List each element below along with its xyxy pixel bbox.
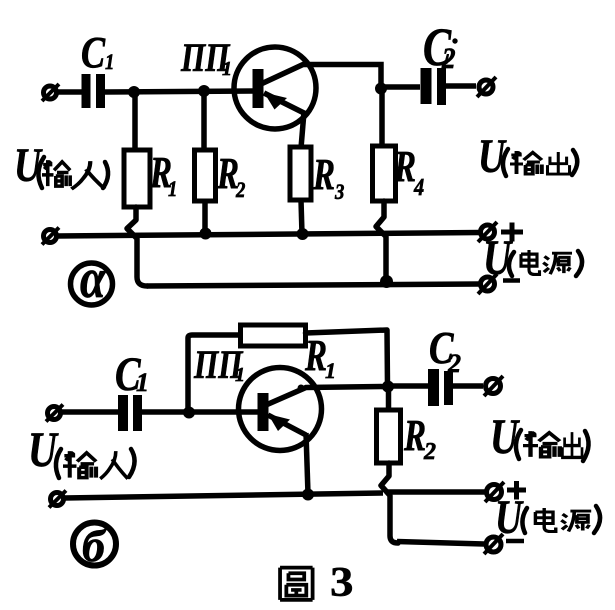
- node R3 rail: [297, 228, 309, 240]
- transistor U1 collector line: [261, 65, 381, 89]
- capacitor C1: [86, 74, 101, 108]
- wire node to R2 b: [386, 386, 392, 411]
- wire input to C1: [57, 89, 82, 95]
- plus sign a: [501, 223, 523, 242]
- resistor R2 b: [377, 410, 401, 463]
- label U output a: [478, 131, 577, 183]
- wire emitter to R3: [301, 112, 304, 148]
- lower rail a: [147, 284, 480, 286]
- wire emitter to rail b: [306, 433, 308, 494]
- label R3: [312, 151, 344, 205]
- resistor R3: [290, 147, 311, 200]
- svg-text:R: R: [403, 412, 426, 461]
- capacitor C1 b: [123, 395, 138, 431]
- svg-text:α: α: [80, 248, 106, 310]
- wire R1 jog to lower rail: [127, 207, 147, 286]
- svg-text:2: 2: [235, 179, 245, 203]
- wire R2 fork to rails b: [381, 463, 398, 543]
- wire node to R1: [132, 92, 138, 151]
- svg-text:1: 1: [136, 368, 149, 397]
- svg-text:2: 2: [441, 43, 455, 76]
- label circle a: [71, 248, 113, 310]
- capacitor C2: [426, 68, 442, 105]
- resistor R1 b horizontal: [241, 325, 306, 346]
- node emitter rail b: [302, 489, 314, 501]
- minus sign b: [506, 539, 524, 544]
- transistor U2 base bar: [258, 393, 269, 431]
- transistor U2 circle: [239, 368, 322, 451]
- transistor U2 emitter arrow: [268, 414, 290, 431]
- terminal minus a: [478, 274, 497, 294]
- node R4 lower rail: [380, 275, 393, 288]
- rail left b: [64, 493, 383, 498]
- node collector C2 R2 b: [382, 381, 394, 393]
- terminal output b: [484, 376, 503, 396]
- label C1 b: [115, 348, 149, 401]
- bottom terminal left b: [49, 491, 66, 508]
- svg-text:C: C: [81, 28, 106, 77]
- wire C2 to output terminal b: [453, 383, 483, 389]
- label U power b: [495, 492, 600, 544]
- svg-text:U: U: [495, 492, 524, 544]
- plus sign b: [507, 481, 526, 500]
- svg-text:1: 1: [168, 178, 177, 202]
- transistor U1 base bar: [253, 69, 264, 108]
- label R2: [216, 150, 245, 203]
- terminal input b: [46, 405, 63, 422]
- wire C1 to transistor base: [105, 91, 254, 92]
- terminal minus b: [484, 534, 503, 554]
- resistor R1: [124, 150, 150, 207]
- label R4: [393, 143, 424, 201]
- label U input b: [28, 422, 135, 479]
- rail right to plus b: [388, 489, 486, 495]
- label circle b: [73, 520, 116, 571]
- svg-text:3: 3: [330, 558, 354, 605]
- capacitor C2 b: [434, 369, 449, 406]
- wire input to C1 b: [61, 409, 118, 415]
- label PP1 a: [180, 35, 232, 80]
- label U output b: [490, 408, 589, 464]
- svg-text:1: 1: [105, 51, 114, 75]
- wire node to R4: [379, 88, 385, 147]
- wire R1 to corner down to collector node b: [306, 330, 388, 386]
- wire node to C2: [381, 84, 420, 90]
- wire node to R2: [201, 91, 207, 151]
- transistor U1 emitter line: [264, 93, 306, 114]
- terminal plus a: [478, 222, 497, 242]
- svg-text:1: 1: [235, 364, 245, 386]
- node collector C2 R4: [375, 83, 387, 95]
- svg-text:2: 2: [423, 439, 436, 465]
- terminal input a: [42, 84, 59, 101]
- label C2: [423, 18, 458, 77]
- label R1 b: [304, 332, 336, 383]
- node feedback b: [183, 407, 195, 419]
- terminal bottom left a: [42, 228, 59, 245]
- node base R1: [128, 86, 140, 98]
- wire R3 to rail: [301, 200, 302, 234]
- terminal plus b: [485, 482, 504, 502]
- svg-text:1: 1: [325, 358, 336, 383]
- upper rail a: [57, 233, 480, 237]
- svg-text:R: R: [393, 143, 416, 192]
- svg-text:R: R: [312, 151, 335, 200]
- label R2 b: [403, 412, 436, 465]
- wire R4 jog crossing upper rail: [376, 201, 386, 279]
- wire feedback up and to R1 b: [188, 335, 240, 411]
- resistor R4: [373, 146, 396, 201]
- transistor U2 collector line: [266, 385, 387, 406]
- resistor R2: [195, 150, 216, 201]
- svg-text:4: 4: [413, 173, 424, 200]
- label C2 b: [429, 323, 461, 378]
- node base R2: [198, 85, 210, 97]
- wire C2 to output terminal: [446, 83, 476, 89]
- transistor U1 emitter arrow: [264, 93, 287, 110]
- wire C1 to base b: [142, 409, 259, 415]
- svg-text:1: 1: [222, 58, 232, 80]
- label U input a: [14, 140, 108, 192]
- wire R2 to rail: [202, 201, 208, 234]
- node R2 rail: [200, 228, 212, 240]
- lower rail to minus b: [397, 542, 484, 545]
- svg-text:2: 2: [447, 349, 461, 378]
- svg-text:б: б: [82, 520, 107, 571]
- label U power a: [483, 229, 582, 285]
- label PP1 b: [193, 342, 245, 387]
- terminal output a: [477, 77, 496, 97]
- label R1: [149, 149, 177, 202]
- minus sign a: [503, 278, 520, 283]
- label C1: [81, 28, 114, 77]
- transistor U1 circle: [234, 47, 316, 129]
- svg-text:3: 3: [334, 181, 344, 205]
- transistor U2 emitter line: [268, 415, 306, 435]
- wire node to C2 b: [388, 383, 428, 389]
- caption figure glyph: [280, 568, 313, 600]
- svg-text:R: R: [304, 332, 327, 381]
- caption number 3: [330, 558, 354, 605]
